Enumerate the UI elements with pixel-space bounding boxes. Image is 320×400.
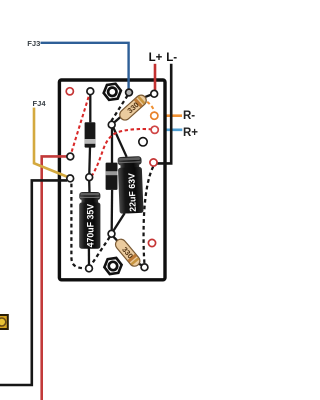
svg-text:L+: L+ xyxy=(149,52,163,64)
svg-text:R-: R- xyxy=(183,110,195,122)
svg-text:22uF 63V: 22uF 63V xyxy=(126,173,137,212)
svg-text:L-: L- xyxy=(166,52,177,64)
svg-text:FJ3: FJ3 xyxy=(27,39,40,48)
svg-text:R+: R+ xyxy=(183,127,198,139)
svg-text:FJ4: FJ4 xyxy=(33,99,47,108)
svg-text:470uF 35V: 470uF 35V xyxy=(85,204,95,248)
